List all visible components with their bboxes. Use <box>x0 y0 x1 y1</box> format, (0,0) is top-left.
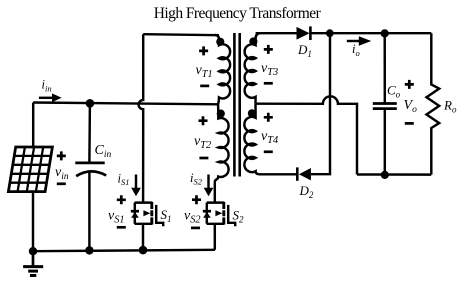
label v_in minus <box>57 182 66 185</box>
label vT1 plus <box>199 46 208 55</box>
label vT2 plus <box>199 116 208 125</box>
label vT1 minus <box>200 85 209 88</box>
capacitor C_o <box>383 33 386 103</box>
dot vT2 <box>217 110 225 118</box>
transformer winding vT3 <box>245 33 261 104</box>
arrow i_s2 <box>207 175 209 189</box>
label vT3 plus <box>264 45 273 54</box>
ground <box>32 251 35 266</box>
label V_o plus <box>405 80 414 89</box>
wire center tap with hop <box>256 96 358 174</box>
arrow i_s1 <box>135 175 137 189</box>
wire S1 drain with hop <box>139 34 144 203</box>
wire left rail <box>32 103 35 252</box>
transformer winding vT1 <box>215 35 230 104</box>
label v_S2 minus <box>191 227 200 230</box>
label v_S1 plus <box>117 195 126 204</box>
label v_S2 plus <box>192 195 201 204</box>
node dot S1 source <box>139 246 148 255</box>
transformer winding vT4 <box>244 104 258 175</box>
diode D1 <box>297 27 310 40</box>
solar panel PV <box>8 147 52 192</box>
wire S2 drain <box>214 183 216 203</box>
label v_in plus <box>57 151 66 160</box>
label vT4 minus <box>264 150 273 153</box>
svg-text:High Frequency Transformer: High Frequency Transformer <box>154 5 322 22</box>
label V_o minus <box>405 122 414 125</box>
dot vT1 <box>216 38 224 46</box>
label vT2 minus <box>199 157 208 160</box>
dot vT3 <box>249 37 257 45</box>
node dot C_o top <box>381 29 389 37</box>
node dot after D1 <box>326 29 334 37</box>
node dot C_in top <box>86 99 95 108</box>
wire input top rail <box>33 103 218 105</box>
wire S2 source <box>214 225 216 250</box>
wire D1-node down to D2 <box>311 33 330 174</box>
wire primary top <box>143 34 219 35</box>
wire S1 source <box>142 225 144 251</box>
label vT3 minus <box>264 82 273 85</box>
wire secondary top rail <box>256 32 297 34</box>
resistor R_o <box>427 33 440 174</box>
mosfet S1 <box>131 202 163 226</box>
wire bottom rail <box>33 250 215 251</box>
wire vT4 to D2 <box>259 173 297 175</box>
diode D2 <box>299 168 311 180</box>
label v_S1 minus <box>117 226 126 229</box>
transformer winding vT2 <box>215 104 229 183</box>
node dot C_o bottom <box>381 171 389 179</box>
node dot C_in bottom <box>85 246 93 254</box>
capacitor C_in <box>88 103 91 162</box>
node dot ground <box>29 247 37 255</box>
label vT4 plus <box>264 113 273 122</box>
mosfet S2 <box>203 202 235 226</box>
arrow i_o <box>347 40 360 42</box>
transformer core <box>233 33 236 177</box>
wire D1 to Ro top <box>310 32 431 34</box>
wire bottom right rail <box>357 173 431 176</box>
arrow i_in <box>39 97 53 99</box>
dot vT4 <box>248 109 256 117</box>
